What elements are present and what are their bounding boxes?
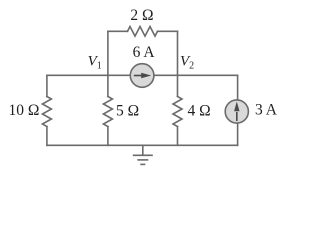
wire: V2 vertical upper segment (177, 75, 179, 96)
resistor 10ohm zigzag (42, 97, 51, 127)
wire: middle horizontal rail (V1-V2 row) (47, 74, 238, 76)
current source I2 3A arrow (points up) (234, 102, 239, 122)
current source I2 3A (circle) (225, 100, 248, 123)
svg-text:6 A: 6 A (133, 44, 156, 61)
wire: right rail vertical (237, 75, 239, 145)
wire: top loop right vertical (down to V2) (177, 31, 179, 75)
ground symbol (133, 145, 153, 164)
current source I1 6A (circle) (130, 64, 154, 88)
svg-text:5 Ω: 5 Ω (116, 103, 139, 120)
svg-text:10 Ω: 10 Ω (9, 102, 40, 119)
wire: left rail lower segment (46, 127, 48, 146)
svg-text:3 A: 3 A (255, 102, 278, 119)
current source I1 6A arrow (points right) (134, 73, 151, 78)
wire: left rail upper segment (46, 75, 48, 96)
wire: V1 vertical upper segment (107, 75, 109, 96)
resistor 4ohm zigzag (173, 97, 182, 127)
resistor R 2ohm zigzag (128, 27, 158, 37)
resistor 5ohm zigzag (103, 97, 112, 127)
svg-text:4 Ω: 4 Ω (188, 103, 211, 120)
wire: top-right horizontal segment (158, 30, 178, 32)
wire: bottom horizontal rail (47, 144, 238, 146)
wire: V2 vertical lower segment (177, 127, 179, 146)
wire: top loop left vertical (V1 up) (107, 31, 109, 75)
svg-text:V2: V2 (180, 54, 194, 72)
svg-text:2 Ω: 2 Ω (130, 7, 153, 24)
svg-text:V1: V1 (88, 54, 102, 72)
wire: top-left horizontal segment (108, 30, 128, 32)
wire: V1 vertical lower segment (107, 127, 109, 146)
